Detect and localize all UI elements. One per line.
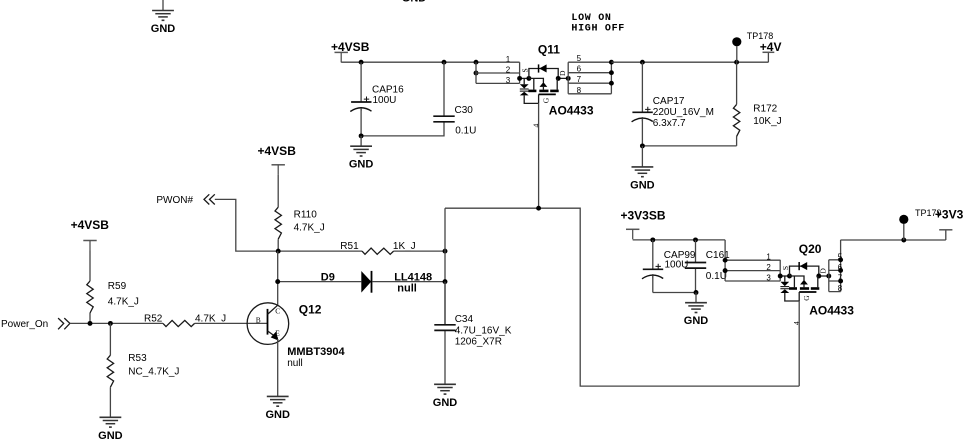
resistor R51	[362, 248, 394, 254]
svg-text:E: E	[275, 328, 280, 337]
wire: +3V3 rail	[841, 230, 946, 240]
wire: CAP99/C161 ground link	[653, 292, 696, 294]
junction: right bus pin6	[609, 70, 614, 75]
wire: D9 cathode	[372, 281, 445, 283]
junction: pin1 bus	[474, 60, 479, 65]
junction: C30 / rail	[442, 60, 447, 65]
svg-text:Q11: Q11	[538, 43, 560, 57]
junction: pin2 bus	[474, 71, 479, 76]
svg-text:4.7K_J: 4.7K_J	[294, 223, 325, 234]
ground (top left, entering from above)	[162, 0, 164, 11]
wire: Q20 pins 5-8 harness	[829, 240, 841, 292]
junction: R110 bottom node	[276, 249, 281, 254]
wire: D9 anode	[278, 281, 362, 283]
svg-text:R53: R53	[128, 353, 147, 364]
wire: gate node vertical	[444, 208, 446, 325]
wire: R51 to gate node	[394, 250, 445, 252]
wire: Q11 pins 1-3 harness	[476, 62, 520, 83]
junction: right bus pin5	[609, 60, 614, 65]
svg-text:6: 6	[577, 65, 582, 74]
svg-text:AO4433: AO4433	[809, 304, 854, 318]
junction: Q20 pin2 bus	[723, 268, 728, 273]
ground (below R53)	[98, 417, 123, 440]
junction: C161 / rail	[693, 237, 698, 242]
svg-text:PWON#: PWON#	[156, 195, 193, 206]
wire: R52 to Q12 base	[195, 322, 268, 324]
junction: Q20 right bus pin7	[838, 279, 843, 284]
svg-text:6.3x7.7: 6.3x7.7	[653, 118, 686, 129]
svg-text:+4V: +4V	[760, 40, 782, 54]
svg-text:null: null	[287, 358, 303, 369]
capacitor C34	[444, 282, 446, 385]
wire: gate node horizontal to Q11 pin4 and Q20	[445, 208, 799, 386]
wire: PWON# to node	[215, 199, 362, 251]
svg-text:CAP16: CAP16	[372, 85, 404, 96]
wire: Q20 gate pin 4	[798, 301, 800, 386]
resistor R53	[109, 323, 111, 417]
resistor R52	[163, 320, 195, 326]
Q12 emitter	[268, 331, 278, 338]
wire: CAP17/R172 ground link	[642, 145, 736, 147]
ground (below C161)	[695, 293, 697, 303]
svg-text:D9: D9	[321, 272, 335, 284]
capacitor C161	[695, 240, 697, 293]
ground (below CAP16)	[360, 136, 362, 146]
transistor Q11 (AO4433 P-MOSFET)	[506, 55, 571, 128]
svg-text:+4VSB: +4VSB	[71, 218, 110, 232]
capacitor C30	[443, 62, 445, 116]
svg-text:null: null	[397, 283, 417, 295]
junction: CAP17 / rail	[640, 60, 645, 65]
svg-text:GND: GND	[402, 0, 427, 5]
wire: +3V3SB rail	[633, 239, 725, 241]
wire: Power_On to R52	[70, 322, 163, 324]
svg-text:0.1U: 0.1U	[455, 126, 476, 137]
junction: Q20 right bus pin6	[838, 268, 843, 273]
svg-text:TP178: TP178	[747, 31, 774, 41]
junction: R53 top	[108, 321, 113, 326]
resistor R59	[89, 251, 91, 324]
svg-text:R110: R110	[294, 210, 318, 221]
capacitor CAP17	[641, 62, 643, 146]
resistor R172	[736, 62, 738, 146]
svg-text:C: C	[275, 307, 280, 316]
test point TP178	[736, 46, 738, 62]
Q12 collector	[268, 305, 278, 314]
junction: Q20 right bus pin5	[838, 257, 843, 262]
svg-text:+3V3: +3V3	[935, 208, 963, 222]
Q12 base bar	[267, 309, 269, 335]
wire: +4V rail	[611, 52, 768, 62]
junction: R51 / gate node	[443, 249, 448, 254]
junction: TP178-R172 / rail	[734, 60, 739, 65]
svg-text:1206_X7R: 1206_X7R	[455, 337, 502, 348]
svg-text:R51: R51	[340, 241, 359, 252]
transistor Q12 (MMBT3904 NPN)	[247, 303, 289, 345]
svg-text:MMBT3904: MMBT3904	[287, 346, 345, 358]
svg-text:R172: R172	[753, 104, 777, 115]
svg-text:R52: R52	[144, 314, 163, 325]
junction: Q20 pin1 bus	[723, 258, 728, 263]
svg-text:LOW ON: LOW ON	[571, 13, 611, 24]
svg-text:Power_On: Power_On	[1, 319, 48, 330]
wire: Q12 collector to D9 node	[277, 251, 279, 305]
power +4V	[763, 51, 775, 53]
wire: CAP16/C30 ground link	[361, 122, 444, 136]
svg-text:100U: 100U	[373, 95, 397, 106]
junction: D9 cathode / gate node	[443, 279, 448, 284]
svg-text:Q20: Q20	[799, 242, 822, 256]
svg-text:HIGH OFF: HIGH OFF	[571, 24, 625, 35]
svg-text:NC_4.7K_J: NC_4.7K_J	[128, 367, 179, 378]
wire: Q12 emitter to ground	[277, 339, 279, 396]
svg-text:1K_J: 1K_J	[393, 241, 416, 252]
capacitor CAP16	[360, 62, 362, 136]
PWON# chevron	[204, 194, 215, 204]
diode D9 (LL4148)	[361, 271, 371, 293]
junction: CAP17 bottom	[640, 143, 645, 148]
transistor Q20 (AO4433 P-MOSFET)	[766, 252, 831, 325]
junction: R59 bottom	[88, 321, 93, 326]
svg-text:C34: C34	[455, 314, 474, 325]
wire: +4VSB rail (top)	[341, 61, 519, 63]
junction: CAP16 / rail	[359, 60, 364, 65]
wire: Q11 pins 5-8 harness	[568, 62, 611, 94]
svg-text:4.7K_J: 4.7K_J	[108, 297, 139, 308]
power +3V3	[939, 229, 952, 231]
ground (below Q12)	[265, 396, 290, 421]
svg-text:B: B	[256, 316, 261, 325]
junction: right bus pin7	[609, 81, 614, 86]
svg-text:0.1U: 0.1U	[706, 271, 727, 282]
junction: C161 bottom	[694, 290, 699, 295]
capacitor CAP99	[652, 240, 654, 293]
junction: TP179 / rail	[901, 238, 906, 243]
svg-text:R59: R59	[108, 281, 127, 292]
junction: CAP99 / rail	[650, 237, 655, 242]
svg-text:AO4433: AO4433	[549, 104, 594, 118]
svg-text:7: 7	[577, 75, 582, 84]
svg-text:8: 8	[838, 284, 843, 293]
svg-text:10K_J: 10K_J	[753, 116, 781, 127]
ground (below C34)	[433, 384, 458, 409]
junction: collector / D9	[275, 279, 280, 284]
svg-text:+3V3SB: +3V3SB	[621, 209, 666, 223]
wire: Q11 gate pin 4	[538, 103, 540, 208]
wire: Q20 pins 1-3 harness	[725, 240, 780, 281]
svg-text:C30: C30	[455, 105, 474, 116]
junction: Q11 gate pin4	[536, 206, 541, 211]
svg-text:5: 5	[577, 54, 582, 63]
svg-text:+4VSB: +4VSB	[258, 144, 297, 158]
Power_On chevron	[58, 318, 70, 329]
resistor R110	[277, 175, 279, 251]
svg-text:8: 8	[577, 86, 582, 95]
svg-text:4.7U_16V_K: 4.7U_16V_K	[455, 326, 512, 337]
ground (below CAP17)	[641, 146, 643, 167]
junction: CAP16 bottom	[359, 133, 364, 138]
svg-text:CAP17: CAP17	[653, 96, 685, 107]
test point TP179	[903, 224, 905, 240]
svg-text:Q12: Q12	[299, 302, 322, 316]
svg-text:220U_16V_M: 220U_16V_M	[653, 107, 714, 118]
